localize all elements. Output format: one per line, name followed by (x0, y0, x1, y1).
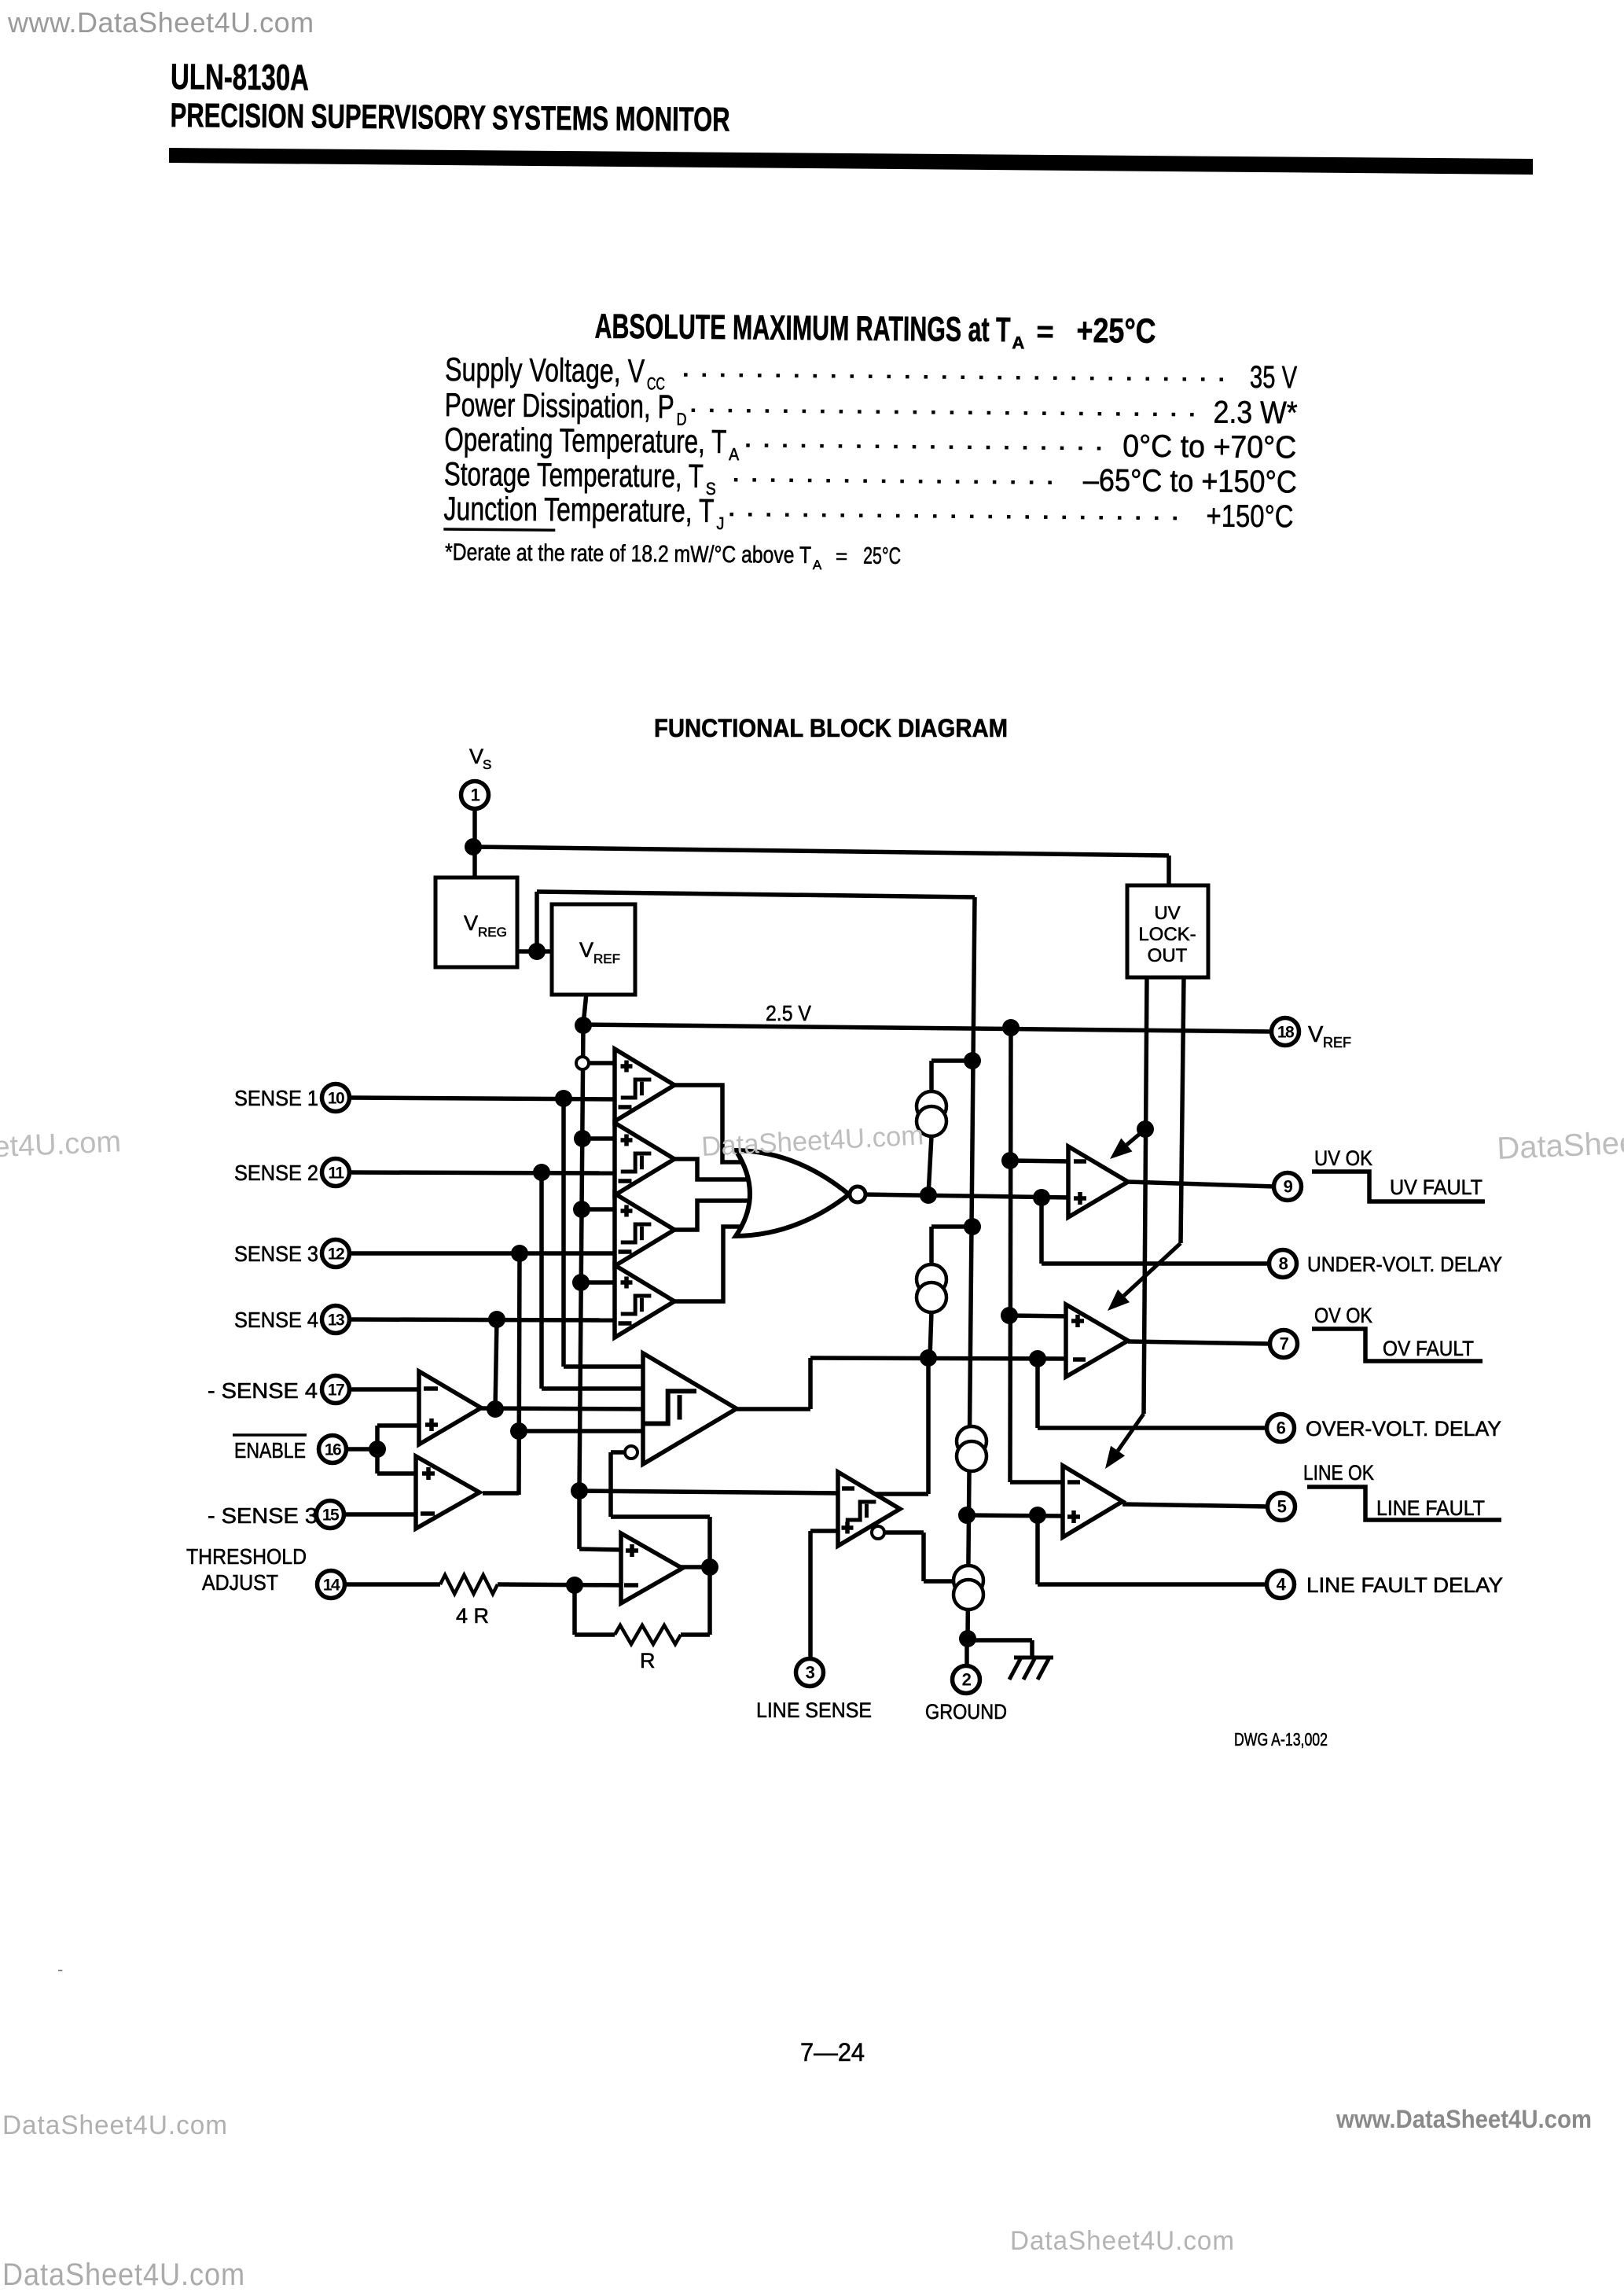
svg-text:ENABLE: ENABLE (234, 1438, 306, 1463)
svg-text:DWG A-13,002: DWG A-13,002 (1234, 1729, 1328, 1750)
svg-text:Operating Temperature, T: Operating Temperature, T (444, 421, 726, 460)
svg-text:SENSE 3: SENSE 3 (234, 1242, 318, 1266)
svg-text:- SENSE 4: - SENSE 4 (208, 1378, 318, 1403)
svg-text:8: 8 (1279, 1254, 1288, 1274)
svg-text:ABSOLUTE MAXIMUM RATINGS at T: ABSOLUTE MAXIMUM RATINGS at T (594, 307, 1010, 350)
svg-text:13: 13 (328, 1312, 344, 1330)
svg-text:S: S (483, 757, 491, 772)
svg-text:UNDER-VOLT. DELAY: UNDER-VOLT. DELAY (1307, 1253, 1502, 1276)
svg-text:V: V (579, 938, 593, 962)
svg-text:11: 11 (328, 1165, 344, 1183)
svg-text:OUT: OUT (1148, 945, 1188, 966)
svg-text:www.DataSheet4U.com: www.DataSheet4U.com (1336, 2105, 1592, 2133)
svg-text:5: 5 (1277, 1497, 1287, 1517)
svg-text:LINE FAULT DELAY: LINE FAULT DELAY (1306, 1573, 1503, 1597)
svg-text:4 R: 4 R (456, 1604, 489, 1628)
svg-text:+25°C: +25°C (1076, 311, 1156, 351)
svg-text:OV FAULT: OV FAULT (1383, 1337, 1474, 1360)
svg-text:Storage Temperature, T: Storage Temperature, T (444, 455, 704, 495)
svg-text:A: A (813, 557, 822, 572)
svg-text:3: 3 (806, 1663, 815, 1683)
svg-text:2: 2 (962, 1670, 972, 1690)
svg-text:1: 1 (471, 786, 480, 805)
svg-text:GROUND: GROUND (925, 1700, 1007, 1724)
svg-text:*Derate at the rate of 18.2 mW: *Derate at the rate of 18.2 mW/°C above … (445, 539, 811, 568)
svg-text:V: V (1308, 1022, 1324, 1047)
svg-text:6: 6 (1277, 1418, 1286, 1438)
svg-text:12: 12 (328, 1246, 344, 1264)
svg-text:DataSheet4U.com: DataSheet4U.com (2, 2257, 245, 2292)
svg-text:LINE OK: LINE OK (1303, 1461, 1374, 1485)
svg-text:10: 10 (328, 1090, 344, 1108)
svg-text:UV: UV (1154, 903, 1180, 924)
svg-text:www.DataSheet4U.com: www.DataSheet4U.com (7, 6, 314, 39)
svg-text:A: A (1012, 333, 1024, 352)
svg-text:ADJUST: ADJUST (202, 1570, 278, 1595)
svg-text:DataSheet4U.com: DataSheet4U.com (2, 2110, 228, 2140)
svg-text:A: A (729, 444, 739, 464)
svg-text:Power Dissipation, P: Power Dissipation, P (444, 386, 674, 425)
svg-text:FUNCTIONAL BLOCK DIAGRAM: FUNCTIONAL BLOCK DIAGRAM (654, 714, 1008, 742)
svg-text:LOCK-: LOCK- (1138, 924, 1196, 945)
svg-text:2.3 W*: 2.3 W* (1213, 395, 1297, 430)
svg-text:0°C to +70°C: 0°C to +70°C (1122, 429, 1296, 465)
svg-text:et4U.com: et4U.com (0, 1125, 122, 1164)
svg-text:REG: REG (478, 925, 507, 940)
svg-text:=: = (1036, 316, 1054, 349)
svg-text:REF: REF (1323, 1035, 1351, 1050)
svg-text:14: 14 (323, 1577, 340, 1595)
svg-text:OV OK: OV OK (1314, 1304, 1372, 1327)
svg-text:17: 17 (328, 1382, 344, 1400)
svg-text:9: 9 (1284, 1177, 1293, 1197)
svg-text:V: V (464, 911, 478, 935)
svg-text:+150°C: +150°C (1206, 499, 1293, 534)
svg-text:THRESHOLD: THRESHOLD (186, 1544, 307, 1569)
svg-text:R: R (640, 1649, 656, 1672)
svg-text:16: 16 (325, 1441, 341, 1459)
svg-text:18: 18 (1277, 1024, 1295, 1042)
svg-text:UV OK: UV OK (1314, 1146, 1372, 1170)
svg-text:Supply Voltage, V: Supply Voltage, V (445, 351, 645, 389)
svg-text:- SENSE 3: - SENSE 3 (208, 1503, 318, 1528)
svg-text:SENSE 2: SENSE 2 (234, 1161, 318, 1185)
svg-text:25°C: 25°C (863, 543, 901, 569)
svg-text:2.5 V: 2.5 V (766, 1001, 811, 1025)
svg-text:-: - (57, 1959, 63, 1979)
svg-text:LINE FAULT: LINE FAULT (1376, 1496, 1485, 1520)
svg-text:=: = (836, 544, 847, 568)
svg-text:UV FAULT: UV FAULT (1390, 1176, 1483, 1199)
svg-text:DataSheet4U.com: DataSheet4U.com (1010, 2226, 1235, 2256)
svg-text:Junction Temperature, T: Junction Temperature, T (443, 490, 714, 529)
svg-text:15: 15 (322, 1507, 340, 1525)
svg-text:–65°C to +150°C: –65°C to +150°C (1083, 463, 1297, 499)
svg-text:V: V (469, 745, 483, 768)
svg-text:35 V: 35 V (1250, 360, 1298, 396)
svg-text:7—24: 7—24 (800, 2038, 865, 2066)
svg-text:7: 7 (1280, 1334, 1289, 1354)
svg-text:SENSE 4: SENSE 4 (234, 1308, 318, 1332)
svg-text:PRECISION SUPERVISORY SYSTEMS: PRECISION SUPERVISORY SYSTEMS MONITOR (170, 97, 729, 139)
svg-text:OVER-VOLT. DELAY: OVER-VOLT. DELAY (1306, 1417, 1501, 1441)
svg-text:J: J (716, 513, 724, 533)
svg-text:ULN-8130A: ULN-8130A (171, 56, 309, 98)
svg-text:REF: REF (593, 951, 620, 966)
svg-text:LINE SENSE: LINE SENSE (756, 1698, 872, 1722)
svg-text:SENSE 1: SENSE 1 (234, 1086, 318, 1110)
